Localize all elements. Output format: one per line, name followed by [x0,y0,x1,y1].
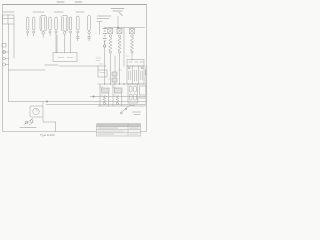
detector label [76,11,84,13]
note text [45,64,58,66]
wire [90,96,146,98]
tuning condenser VC3 [130,29,135,38]
wire [105,28,132,29]
wire [8,70,10,102]
terminal [131,51,133,53]
battery label + arrow [111,9,124,16]
terminal posts [2,44,9,67]
coil L1 [109,38,112,52]
wire [117,16,119,28]
capacitor C3 [49,17,51,36]
wire [119,53,121,83]
antenna coupler T1 [3,15,15,24]
switch S1 [120,106,134,115]
label [138,97,145,99]
label [20,127,36,129]
resistor R1 box [98,70,107,77]
wire [43,117,56,132]
label [133,112,141,115]
resistor R2 [102,88,110,93]
sheet header text [57,1,82,3]
wire [46,104,146,106]
tube V2 [62,16,69,54]
rheostat R5 [116,95,118,103]
junction [46,101,48,103]
wire [8,24,10,70]
capacitor C4 [55,17,57,53]
note text [97,16,111,19]
RF stage 2 label [54,11,63,13]
antenna coupler T1 label [3,11,14,13]
coil L2 [118,38,121,52]
tuning condenser VC2 [117,29,122,38]
wire [42,102,44,107]
value labels [99,56,129,95]
wire [100,84,122,106]
wire [9,101,147,103]
wire [59,66,98,70]
socket strip U1 [128,84,138,103]
value label [96,58,101,61]
wire [131,53,133,60]
wire [97,22,102,35]
tube V3 [88,16,91,42]
title block [97,124,141,137]
wire [109,53,111,83]
capacitor C2 [33,17,35,36]
rheostat R4 [103,95,105,103]
border frame [3,4,147,6]
wire [98,65,106,67]
wire [104,47,106,83]
capacitor C8 [112,78,117,82]
junction [117,27,118,28]
bus wire [98,105,146,107]
crystal Y1 [24,119,33,126]
junction dots [104,83,125,84]
capacitor C1 [27,17,29,36]
terminal [118,51,120,53]
box [140,86,147,95]
wire [13,24,15,58]
bus wire [98,83,146,85]
battery B1 plates [103,29,107,48]
bus wire [105,27,145,29]
tuning condenser VC1 [108,29,113,38]
coil L3 [130,38,133,52]
terminal [117,103,119,105]
wire [9,69,46,71]
wire [123,28,125,67]
wire [114,56,116,83]
RF stage 1 label [33,11,44,13]
capacitor C6 [76,16,79,41]
capacitor C5 [69,17,71,53]
terminal [104,103,106,105]
wire [56,35,58,53]
transformer T2 [127,60,144,85]
capacitor C7 [112,72,117,76]
resistor R3 [115,88,123,93]
terminal [109,51,111,53]
interstage box [53,53,77,62]
label [145,70,147,75]
svg-text:Type R-300: Type R-300 [40,133,55,137]
meter M1 [30,106,43,117]
wire [145,66,147,104]
tube V1 [40,16,47,38]
